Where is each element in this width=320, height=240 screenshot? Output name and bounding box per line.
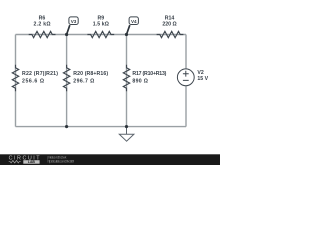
svg-text:220 Ω: 220 Ω (162, 22, 176, 28)
svg-text:296.7 Ω: 296.7 Ω (73, 78, 94, 84)
svg-text:V4: V4 (131, 19, 137, 24)
svg-text:R20 (R8+R16): R20 (R8+R16) (73, 71, 108, 77)
svg-text:R17 (R10+R13): R17 (R10+R13) (132, 71, 166, 77)
svg-text:LAB: LAB (28, 160, 36, 164)
svg-text:R22 (R7||R21): R22 (R7||R21) (22, 71, 58, 77)
svg-text:http://circuitlab.com/c/7kddrb: http://circuitlab.com/c/7kddrbf (48, 160, 75, 164)
svg-text:15 V: 15 V (197, 76, 208, 82)
svg-text:256.6 Ω: 256.6 Ω (22, 78, 44, 84)
svg-text:1.5 kΩ: 1.5 kΩ (93, 22, 109, 28)
svg-text:890 Ω: 890 Ω (132, 78, 148, 84)
svg-text:2.2 kΩ: 2.2 kΩ (34, 22, 51, 28)
svg-text:V3: V3 (71, 19, 77, 24)
